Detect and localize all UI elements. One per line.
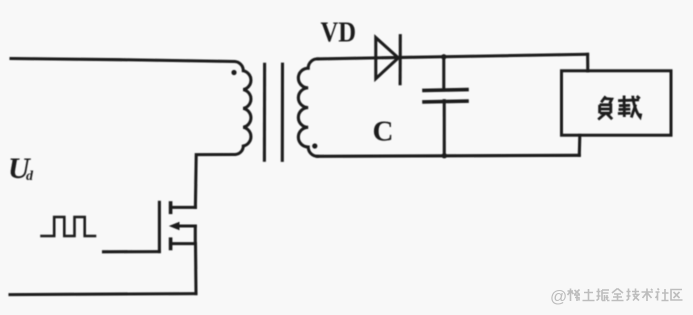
wire: primary bottom to MOSFET drain (195, 155, 234, 208)
MOSFET Q body stub with arrow (177, 224, 195, 227)
capacitor C bottom plate (424, 99, 467, 103)
polarity dot secondary (bottom) (312, 143, 317, 148)
svg-text:@: @ (550, 287, 567, 306)
gate pulse waveform (42, 217, 96, 236)
MOSFET Q channel bar bottom (169, 239, 173, 248)
svg-text:d: d (26, 169, 34, 184)
diode VD cathode bar (399, 36, 402, 84)
wire: secondary bottom to load (318, 155, 580, 156)
wire: bottom return wire (10, 294, 196, 295)
wire: MOSFET source lead down (194, 244, 198, 294)
polarity dot primary (top) (231, 70, 236, 75)
MOSFET Q drain stub (171, 206, 196, 209)
MOSFET Q source stub (171, 242, 196, 245)
wire: top-left input wire to transformer primary (11, 59, 234, 62)
transformer T secondary winding (298, 59, 317, 156)
MOSFET Q gate plate (158, 202, 161, 251)
wire: load bottom lead (578, 135, 582, 155)
label 负载 (load) (598, 96, 612, 119)
transformer core line left (263, 64, 266, 160)
技 (627, 289, 640, 301)
wire: secondary top to load (through diode anode region) (318, 54, 588, 59)
土 (583, 289, 595, 301)
稀 (568, 289, 581, 302)
wire: body to source connection (194, 226, 197, 244)
node junction bottom (capacitor to bottom wire) (442, 153, 447, 158)
capacitor C top plate (424, 88, 467, 92)
wire: gate lead (104, 250, 160, 253)
watermark @稀土掘金技术社区 (550, 287, 683, 306)
术 (642, 289, 654, 302)
svg-text:VD: VD (321, 17, 357, 49)
diode VD triangle (376, 38, 399, 79)
wire: capacitor top lead (442, 57, 445, 90)
掘 (597, 289, 610, 301)
transformer T primary winding (234, 61, 251, 154)
svg-text:C: C (373, 116, 394, 148)
金 (612, 289, 624, 301)
MOSFET Q channel bar top (169, 203, 173, 212)
node junction top (capacitor to top wire) (441, 54, 446, 59)
wire: load top lead (586, 54, 589, 71)
wire: capacitor bottom lead (443, 101, 446, 156)
社 (656, 289, 669, 301)
transformer core line right (281, 64, 284, 160)
区 (671, 290, 683, 301)
load box (负载) (562, 71, 672, 135)
